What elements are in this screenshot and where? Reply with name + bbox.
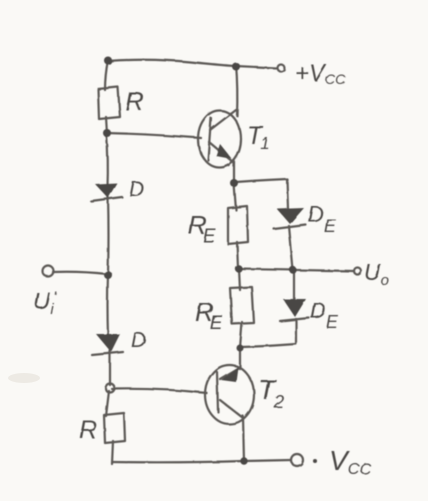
diode D1 cathode bar	[91, 197, 122, 201]
node A junction dot	[104, 57, 112, 65]
transistor T1 emitter arrow	[216, 144, 232, 159]
wire input terminal to node C	[53, 272, 107, 274]
wire bottom rail	[112, 460, 291, 462]
node H junction dot	[237, 345, 244, 352]
svg-text:R: R	[79, 416, 97, 444]
wire node B down to diode D1	[106, 133, 107, 186]
wire from D1 to input node C	[107, 196, 110, 274]
wire T2 collector to bottom rail	[243, 416, 244, 462]
transistor T2 base bar	[217, 372, 218, 412]
diode D2 filled triangle	[96, 334, 120, 352]
wire node E to right corner and down to DE1	[236, 179, 288, 209]
diode DE2 bar	[280, 318, 309, 321]
wire from R1 to node B	[106, 117, 107, 134]
node top rail junction dot	[232, 63, 240, 71]
wire node D down to resistor R2	[106, 391, 109, 416]
resistor R2	[104, 413, 125, 443]
wire top rail from node A to +Vcc terminal	[108, 60, 276, 68]
diode DE2 filled triangle	[283, 299, 306, 317]
wire node H to T2	[239, 347, 241, 369]
+Vcc terminal circle	[278, 65, 285, 72]
wire DE2 down and left to node H	[241, 319, 296, 347]
faint smudge left margin	[8, 373, 40, 383]
svg-text:R: R	[125, 86, 144, 116]
wire RE2 to node H	[240, 322, 242, 348]
node B junction dot	[103, 129, 111, 137]
transistor T1 circle	[198, 111, 241, 168]
wire R2 to bottom rail	[112, 441, 113, 464]
wire node F down to RE2	[239, 269, 240, 290]
transistor T2 collector line inside	[220, 400, 243, 418]
wire node E down to RE1	[234, 184, 236, 210]
transistor T1 collector line inside	[210, 110, 236, 130]
diode D2 cathode bar	[92, 352, 123, 355]
node E junction dot	[230, 179, 238, 187]
wire node G down to DE2	[293, 270, 295, 302]
node D small circle junction	[106, 384, 115, 393]
wire RE1 to output rail node F	[237, 242, 238, 269]
node G junction dot	[289, 266, 296, 273]
diode DE1 filled triangle	[277, 208, 304, 224]
svg-text:D: D	[129, 178, 144, 201]
wire node C down to diode D2	[106, 274, 109, 336]
input terminal circle	[43, 266, 54, 277]
diode DE1 bar	[274, 225, 306, 229]
transistor T1 base bar	[208, 118, 211, 160]
-Vcc terminal circle	[291, 454, 303, 466]
transistor T2 emitter arrow	[221, 367, 238, 382]
wire left vertical from node A to resistor R1	[105, 60, 108, 90]
wire T1 collector to top rail node	[236, 64, 237, 116]
wire base of T2 from node D	[112, 389, 207, 393]
node F junction dot	[235, 265, 242, 272]
node C junction dot	[104, 271, 112, 279]
resistor RE2	[230, 287, 254, 324]
resistor RE1	[228, 206, 248, 244]
wire from D2 to node D	[109, 351, 111, 385]
svg-text:D: D	[131, 329, 146, 352]
transistor T1 emitter line inside	[209, 142, 234, 163]
wire base of T1 from node B	[106, 133, 201, 138]
minus dot before Vcc	[313, 459, 317, 463]
transistor T2 emitter line inside	[220, 367, 240, 379]
wire DE1 to output rail node G	[289, 226, 293, 270]
wire T1 emitter to node E	[233, 160, 235, 184]
output terminal circle	[354, 268, 361, 275]
diode D1 filled triangle	[95, 183, 117, 198]
bottom rail junction dot	[240, 457, 247, 464]
transistor T2 circle	[205, 365, 254, 424]
wire output rail	[240, 269, 354, 271]
resistor R1	[98, 87, 120, 119]
